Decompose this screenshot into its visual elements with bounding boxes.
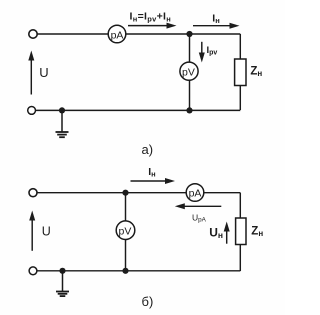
wire voltmeter branch (b): [125, 193, 127, 221]
svg-text:а): а): [142, 142, 154, 157]
arrow UH load voltage (b): [224, 222, 230, 244]
wire bottom (b): [37, 270, 240, 272]
terminal top-left a: [29, 30, 37, 38]
wire right vertical (b): [239, 193, 241, 218]
svg-text:pA: pA: [189, 188, 202, 200]
wire right vertical (a): [239, 34, 241, 59]
ammeter pA (circuit a): [108, 25, 126, 43]
load ZH (circuit b): [236, 218, 246, 245]
wire top-left to ammeter (b): [37, 192, 186, 194]
voltmeter pV (circuit a): [180, 62, 198, 80]
voltmeter pV (circuit b): [116, 221, 135, 240]
wire ammeter to right corner: [126, 33, 241, 35]
arrow U source voltage (a): [28, 51, 34, 95]
terminal top-left b: [29, 189, 37, 197]
load ZH (circuit a): [235, 59, 246, 86]
arrow U source voltage (b): [29, 211, 35, 251]
node: ground junction (a): [59, 107, 65, 113]
svg-text:pV: pV: [119, 226, 132, 238]
arrow UpA voltage drop (b): [175, 203, 222, 209]
arrow IH current (b): [131, 178, 176, 184]
svg-text:pA: pA: [111, 29, 124, 41]
wire ammeter to right corner (b): [204, 192, 241, 194]
terminal bottom-left b: [29, 267, 37, 275]
arrow I sum current (a): [128, 23, 177, 29]
ground (circuit a): [56, 110, 69, 137]
terminal bottom-left a: [28, 107, 36, 115]
svg-text:б): б): [142, 294, 154, 309]
wire voltmeter branch (a): [189, 34, 191, 62]
svg-text:U: U: [39, 65, 48, 80]
arrow IpV voltmeter current (a): [199, 42, 205, 63]
ammeter pA (circuit b): [186, 184, 204, 202]
wire bottom (a): [35, 109, 240, 111]
svg-text:pV: pV: [182, 67, 195, 79]
node: bottom junction of pV branch (b): [122, 268, 128, 274]
wire top-left to ammeter: [38, 33, 109, 35]
node: bottom junction of pV branch (a): [186, 107, 192, 113]
svg-text:U: U: [42, 225, 51, 239]
node: ground junction (b): [59, 268, 65, 274]
ground (circuit b): [56, 271, 69, 296]
node: top junction of pV branch (b): [122, 190, 128, 196]
node: top junction of pV branch (a): [186, 31, 192, 37]
arrow IH load current (a): [193, 23, 240, 29]
